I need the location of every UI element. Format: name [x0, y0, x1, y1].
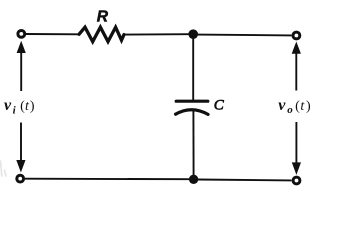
terminal bottom-left (open circle): [17, 175, 24, 182]
resistor R: [79, 27, 124, 41]
wire capacitor branch upper: [192, 34, 194, 100]
wire top-left: input terminal to resistor: [26, 33, 79, 35]
wire bottom-left: bottom terminal to node B: [25, 178, 189, 181]
svg-text:vi(t): vi(t): [4, 97, 35, 117]
terminal top-right (open circle): [293, 32, 300, 39]
output voltage arrowhead up: [292, 42, 301, 54]
svg-text:C: C: [214, 98, 225, 114]
capacitor C top plate: [176, 100, 208, 103]
wire top-mid: resistor to node A: [124, 33, 189, 35]
capacitor C curved plate: [176, 110, 208, 115]
svg-text:vo(t): vo(t): [278, 97, 311, 116]
wire bottom-right: node B to output terminal: [198, 179, 292, 182]
node A (top junction dot): [188, 29, 198, 39]
terminal top-left (open circle): [18, 31, 25, 38]
output voltage arrow lower segment: [295, 122, 297, 165]
input voltage arrow upper segment: [20, 50, 22, 91]
input voltage arrowhead down: [16, 160, 25, 173]
wire top-right: node A to output terminal: [197, 34, 292, 37]
input voltage arrowhead up: [17, 41, 26, 53]
input voltage arrow lower segment: [20, 123, 22, 164]
svg-text:R: R: [97, 8, 109, 25]
output voltage arrowhead down: [292, 162, 301, 175]
output voltage arrow upper segment: [295, 51, 297, 91]
faint scan artifact left edge: [1, 161, 7, 176]
terminal bottom-right (open circle): [293, 177, 300, 184]
wire capacitor branch lower: [192, 111, 194, 179]
node B (bottom junction dot): [189, 175, 198, 184]
